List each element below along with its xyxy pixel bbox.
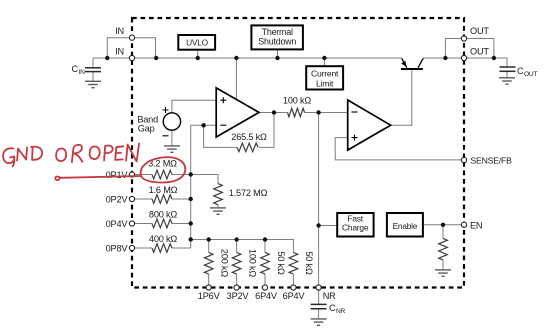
svg-text:IN: IN: [115, 46, 124, 56]
svg-text:0P1V: 0P1V: [106, 170, 129, 180]
svg-text:50 kΩ: 50 kΩ: [304, 251, 314, 275]
svg-text:EN: EN: [470, 220, 482, 230]
svg-text:6P4V: 6P4V: [255, 291, 278, 301]
svg-text:400 kΩ: 400 kΩ: [149, 234, 177, 244]
svg-text:SENSE/FB: SENSE/FB: [470, 156, 512, 166]
svg-text:Current: Current: [311, 69, 339, 79]
svg-text:NR: NR: [336, 308, 346, 315]
svg-text:C: C: [72, 64, 79, 74]
svg-text:Gap: Gap: [138, 123, 155, 133]
svg-text:C: C: [517, 66, 524, 76]
svg-text:Shutdown: Shutdown: [258, 36, 296, 46]
svg-text:0P4V: 0P4V: [106, 219, 129, 229]
svg-text:NR: NR: [323, 291, 336, 301]
svg-text:100 kΩ: 100 kΩ: [247, 249, 257, 277]
svg-text:50 kΩ: 50 kΩ: [276, 251, 286, 275]
svg-text:Enable: Enable: [393, 221, 418, 231]
svg-text:3P2V: 3P2V: [227, 291, 250, 301]
svg-text:1P6V: 1P6V: [198, 291, 221, 301]
svg-text:6P4V: 6P4V: [283, 291, 306, 301]
svg-text:0P8V: 0P8V: [106, 244, 129, 254]
svg-text:IN: IN: [79, 69, 86, 76]
svg-text:1.6 MΩ: 1.6 MΩ: [149, 185, 178, 195]
svg-text:1.572 MΩ: 1.572 MΩ: [229, 188, 268, 198]
svg-text:OUT: OUT: [524, 71, 537, 78]
svg-text:265.5 kΩ: 265.5 kΩ: [231, 132, 267, 142]
svg-text:UVLO: UVLO: [186, 37, 209, 47]
svg-text:100 kΩ: 100 kΩ: [283, 96, 311, 106]
svg-text:OUT: OUT: [470, 26, 489, 36]
svg-text:Limit: Limit: [316, 78, 334, 88]
svg-text:200 kΩ: 200 kΩ: [220, 249, 230, 277]
svg-text:Charge: Charge: [342, 222, 369, 232]
svg-text:C: C: [329, 303, 336, 313]
svg-text:OUT: OUT: [470, 46, 489, 56]
svg-text:0P2V: 0P2V: [106, 195, 129, 205]
svg-text:IN: IN: [115, 26, 124, 36]
svg-text:800 kΩ: 800 kΩ: [149, 210, 177, 220]
